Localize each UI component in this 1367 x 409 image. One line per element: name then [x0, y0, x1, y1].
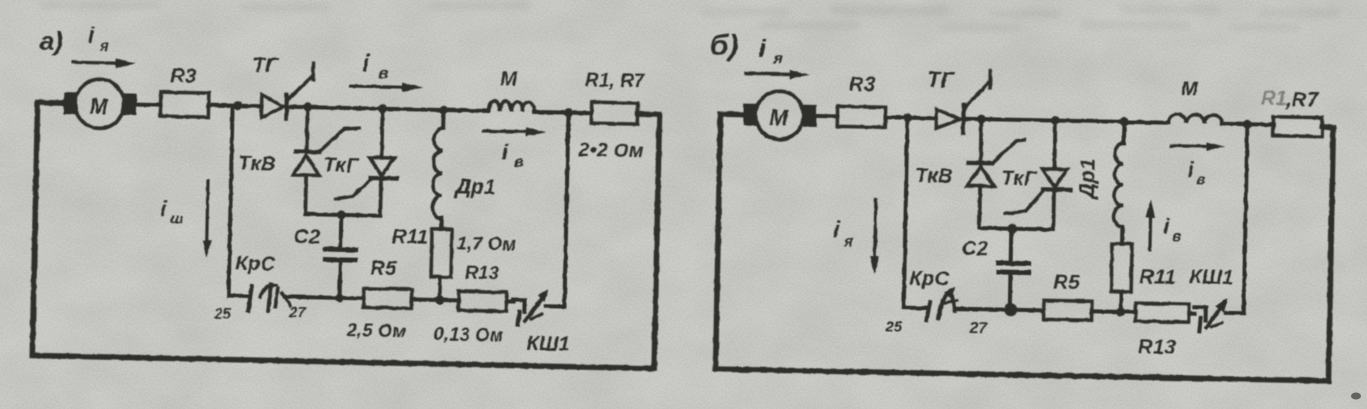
resistor R3	[160, 92, 208, 117]
thyristor TkG	[380, 109, 382, 216]
thyristor TkV	[979, 119, 981, 228]
circuit a: arrows and labels	[34, 22, 647, 358]
wire shunt branch vertical	[229, 106, 233, 296]
wire KrS to R5	[285, 297, 364, 299]
motor terminal left	[743, 104, 756, 126]
svg-text:М: М	[500, 68, 518, 90]
capacitor C2	[1010, 229, 1012, 310]
wire KSh1 vertical to top	[1244, 124, 1248, 313]
wire TG right	[963, 119, 1168, 123]
wire i_ya branch vertical	[904, 118, 908, 308]
svg-text:1,7 Ом: 1,7 Ом	[457, 233, 517, 254]
svg-text:R1: R1	[1261, 88, 1288, 111]
wire inner bottom	[904, 306, 926, 310]
contact KSh1	[507, 299, 514, 303]
svg-text:ТкГ: ТкГ	[323, 155, 360, 178]
node C2 top junction	[1007, 224, 1017, 234]
svg-text:R3: R3	[849, 74, 876, 97]
wire motor to R3	[815, 114, 837, 118]
contact KrS	[248, 286, 252, 311]
svg-text:ТкВ: ТкВ	[238, 153, 276, 176]
svg-text:С2: С2	[294, 226, 321, 249]
svg-text:ш: ш	[170, 210, 184, 227]
faint ghost bleed-through top band	[40, 2, 1340, 31]
svg-text:ТкГ: ТкГ	[1001, 168, 1038, 191]
svg-text:,R7: ,R7	[1285, 89, 1319, 112]
svg-text:КШ1: КШ1	[526, 333, 569, 356]
node C2 bottom junction	[335, 294, 343, 302]
svg-text:М: М	[769, 105, 788, 130]
svg-text:М: М	[1181, 78, 1199, 100]
capacitor C2	[340, 215, 342, 298]
wire inner bottom left	[229, 294, 249, 298]
arrowhead KSh1	[1216, 298, 1228, 313]
circuit b: arrows and labels	[704, 29, 1320, 362]
wire R3 to TG	[209, 105, 262, 106]
svg-text:27: 27	[968, 320, 988, 337]
resistor R3	[837, 106, 885, 127]
svg-text:М: М	[89, 94, 109, 119]
wire R5 to R13	[1092, 309, 1136, 314]
stray scan speck bottom right	[1351, 393, 1361, 400]
node TkV top	[977, 115, 986, 124]
current arrow i_v vertical	[1148, 215, 1152, 251]
svg-text:КрС: КрС	[235, 253, 276, 276]
svg-text:в: в	[1172, 228, 1181, 245]
wire R3 to TG	[885, 115, 936, 120]
motor terminal right	[803, 105, 816, 127]
inductor M field winding	[489, 101, 535, 112]
svg-text:КШ1: КШ1	[1189, 266, 1234, 289]
svg-text:я: я	[772, 50, 783, 67]
wire thyristor bottom node	[305, 214, 380, 216]
wire KSh1 vertical to top	[564, 113, 568, 307]
inductor Dr1	[441, 110, 445, 128]
svg-text:0,13 Ом: 0,13 Ом	[434, 324, 504, 345]
resistor R13	[1136, 303, 1189, 322]
svg-text:2,5 Ом: 2,5 Ом	[346, 320, 407, 341]
svg-text:25: 25	[213, 305, 232, 322]
wire M coil to R1	[1222, 122, 1273, 127]
svg-text:i: i	[833, 216, 840, 242]
thyristor TG	[936, 109, 960, 128]
resistor R1	[1273, 117, 1322, 137]
svg-text:R13: R13	[465, 263, 499, 284]
inductor Dr1	[1122, 122, 1126, 143]
node C2 bottom junction	[1004, 303, 1017, 316]
svg-text:R11: R11	[392, 226, 429, 249]
svg-text:R1, R7: R1, R7	[585, 70, 646, 92]
wire TG to M coil	[284, 107, 489, 111]
thyristor TkV	[305, 107, 307, 214]
resistor R11	[1111, 244, 1132, 292]
svg-text:б): б)	[709, 29, 738, 63]
resistor R1R7	[591, 102, 637, 124]
motor terminal right	[123, 93, 136, 115]
inductor M field winding	[1168, 114, 1222, 124]
svg-text:R5: R5	[1053, 272, 1080, 295]
svg-text:я: я	[843, 234, 854, 251]
contact KSh1	[1189, 311, 1195, 315]
motor terminal left	[63, 92, 76, 114]
node Dr1 top	[1120, 117, 1129, 126]
wire R5 to R13	[412, 297, 459, 302]
svg-text:ТГ: ТГ	[927, 67, 956, 93]
wire M coil to R1R7	[534, 112, 592, 113]
svg-text:Др1: Др1	[1076, 158, 1100, 200]
node M coil right junction	[564, 108, 573, 117]
resistor R5	[363, 288, 411, 308]
motor M1	[75, 79, 125, 129]
svg-text:R3: R3	[170, 65, 197, 88]
svg-text:в: в	[514, 154, 523, 171]
wire thyristor bottom node	[979, 228, 1053, 229]
node TkV top	[303, 103, 312, 112]
svg-text:R5: R5	[370, 258, 397, 281]
node TkG top	[1051, 116, 1060, 125]
wire KrS to R5	[955, 309, 1044, 311]
node C2 top junction	[337, 210, 346, 219]
svg-text:27: 27	[288, 304, 307, 321]
resistor R13	[458, 291, 506, 311]
svg-text:R11: R11	[1139, 266, 1176, 289]
node TkG top	[378, 104, 387, 113]
node after R3	[903, 113, 912, 122]
svg-text:25: 25	[884, 318, 903, 335]
svg-text:С2: С2	[962, 238, 989, 261]
svg-text:ТкВ: ТкВ	[915, 165, 953, 188]
wire motor to R3	[135, 103, 161, 108]
arrowhead KSh1	[538, 289, 548, 302]
svg-text:в: в	[1196, 171, 1205, 188]
node after R3	[233, 101, 242, 110]
node Dr1 top	[439, 105, 448, 114]
svg-text:ТГ: ТГ	[252, 54, 279, 78]
resistor R11	[431, 229, 452, 277]
svg-text:КрС: КрС	[909, 268, 950, 291]
motor M2	[755, 91, 804, 140]
svg-text:а): а)	[40, 26, 64, 56]
wire outer loop	[716, 114, 1334, 381]
thyristor TG	[261, 95, 283, 118]
node R11 bottom junction	[435, 295, 444, 304]
thyristor TkG	[1053, 121, 1055, 230]
svg-text:Др1: Др1	[454, 175, 496, 199]
svg-text:2•2 Ом: 2•2 Ом	[577, 140, 644, 162]
resistor R5	[1044, 300, 1092, 320]
svg-text:R13: R13	[1138, 336, 1177, 359]
svg-text:я: я	[99, 38, 109, 55]
contact KrS	[927, 302, 930, 320]
svg-text:в: в	[378, 64, 389, 83]
node M coil right junction	[1243, 120, 1252, 129]
wire outer loop left/bottom/right	[32, 102, 659, 369]
node R11 bottom junction	[1116, 307, 1125, 316]
